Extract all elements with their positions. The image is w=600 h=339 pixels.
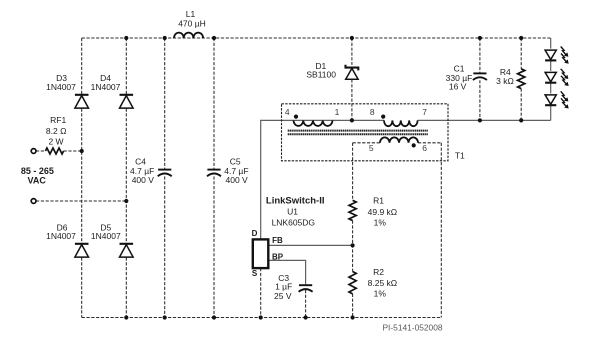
svg-text:1N4007: 1N4007 — [46, 82, 76, 92]
svg-text:C5: C5 — [230, 156, 241, 166]
svg-text:49.9 kΩ: 49.9 kΩ — [368, 207, 398, 217]
svg-text:SB1100: SB1100 — [306, 70, 336, 80]
svg-text:6: 6 — [422, 143, 427, 153]
svg-text:7: 7 — [422, 107, 427, 117]
svg-text:8: 8 — [370, 107, 375, 117]
svg-text:400 V: 400 V — [225, 175, 248, 185]
svg-text:BP: BP — [272, 253, 284, 262]
svg-text:D: D — [252, 229, 258, 238]
svg-text:16 V: 16 V — [449, 81, 467, 91]
svg-text:FB: FB — [272, 236, 283, 245]
svg-text:2 W: 2 W — [48, 137, 63, 147]
svg-text:C1: C1 — [454, 63, 465, 73]
svg-text:C4: C4 — [135, 156, 146, 166]
svg-text:4: 4 — [285, 107, 290, 117]
svg-text:1N4007: 1N4007 — [91, 82, 121, 92]
svg-text:85 - 265: 85 - 265 — [21, 166, 54, 176]
svg-text:1%: 1% — [374, 218, 387, 228]
svg-text:VAC: VAC — [28, 176, 47, 186]
svg-text:470 µH: 470 µH — [178, 18, 206, 28]
svg-text:25 V: 25 V — [274, 291, 292, 301]
svg-text:8.2 Ω: 8.2 Ω — [46, 126, 67, 136]
svg-text:5: 5 — [369, 143, 374, 153]
svg-text:400 V: 400 V — [132, 175, 155, 185]
svg-text:T1: T1 — [455, 151, 465, 161]
svg-text:8.25 kΩ: 8.25 kΩ — [368, 278, 398, 288]
svg-text:1%: 1% — [374, 289, 387, 299]
svg-text:R1: R1 — [373, 196, 384, 206]
svg-text:LNK605DG: LNK605DG — [272, 218, 315, 228]
svg-text:1N4007: 1N4007 — [46, 231, 76, 241]
svg-text:RF1: RF1 — [50, 115, 66, 125]
svg-text:3 kΩ: 3 kΩ — [496, 76, 514, 86]
svg-text:U1: U1 — [287, 206, 298, 216]
svg-text:R2: R2 — [373, 267, 384, 277]
svg-text:1: 1 — [335, 107, 340, 117]
svg-text:S: S — [252, 269, 258, 278]
svg-text:PI-5141-052008: PI-5141-052008 — [382, 323, 442, 333]
svg-text:LinkSwitch-II: LinkSwitch-II — [266, 196, 325, 207]
svg-text:1N4007: 1N4007 — [91, 231, 121, 241]
